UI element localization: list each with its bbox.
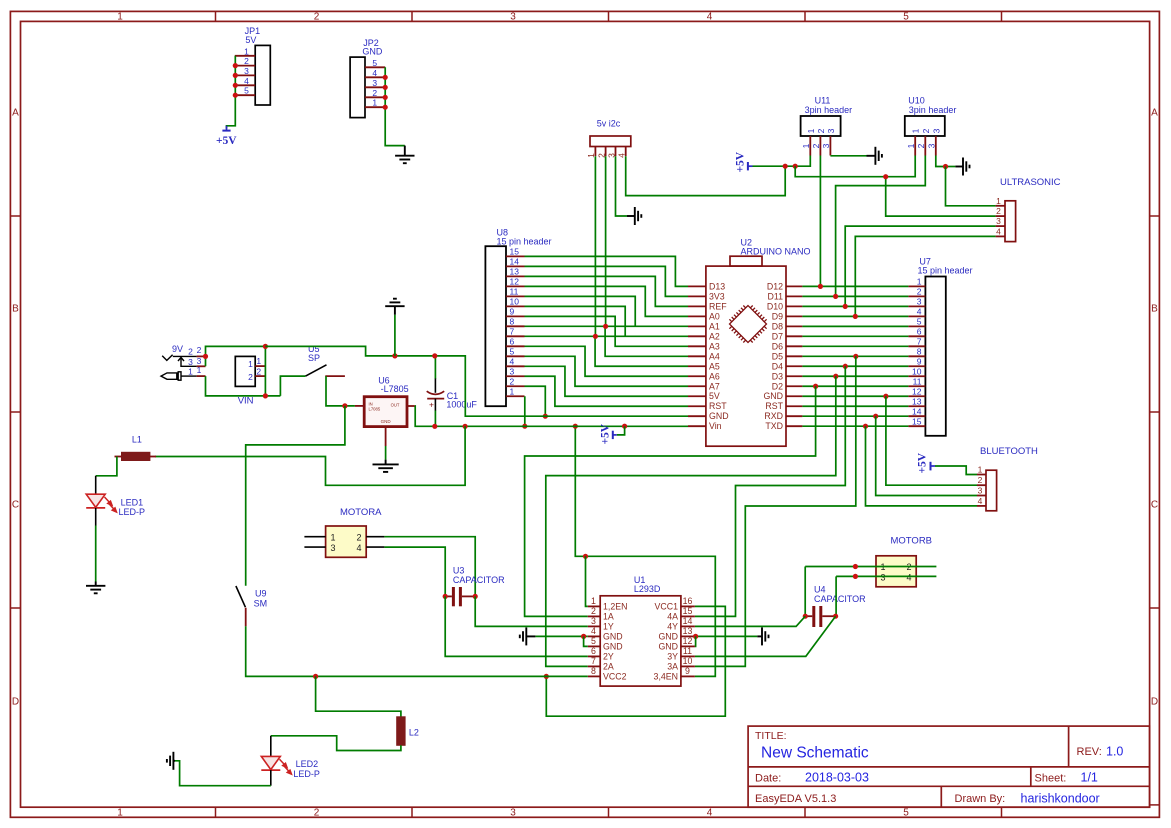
- svg-text:2: 2: [921, 128, 931, 133]
- svg-text:7: 7: [510, 327, 515, 337]
- wire +5V rail to U11 pin1: [753, 156, 811, 167]
- wire +5V to BLUETOOTH pin1: [935, 466, 977, 475]
- U2 right pin D3: [786, 375, 802, 377]
- svg-text:GND: GND: [763, 391, 783, 401]
- U7 pin 2: [908, 295, 925, 297]
- svg-text:4: 4: [591, 626, 596, 636]
- svg-text:+5V: +5V: [917, 452, 929, 473]
- svg-text:1.0: 1.0: [1106, 745, 1123, 759]
- svg-text:1: 1: [806, 128, 816, 133]
- connector 5v i2c: [590, 136, 631, 147]
- wire U2 D7 to U7 pin 6: [802, 335, 908, 337]
- svg-text:2: 2: [256, 367, 261, 377]
- MOTORA right leads: [366, 536, 384, 538]
- svg-text:2: 2: [188, 347, 193, 357]
- wire U1 pin4 to pin5: [584, 636, 588, 646]
- U10 pin 3: [935, 136, 937, 156]
- U2 right pin D4: [786, 365, 802, 367]
- title block: [748, 726, 1150, 807]
- wire U2 D11 to U7 pin 2: [802, 295, 908, 297]
- svg-text:EasyEDA V5.1.3: EasyEDA V5.1.3: [755, 793, 836, 805]
- svg-text:15: 15: [510, 247, 520, 257]
- ground at JP2: [404, 146, 406, 156]
- U7 pin 5: [908, 325, 925, 327]
- U1 pin 7 2A: [588, 665, 600, 667]
- U2 right pin TXD: [786, 425, 802, 427]
- wire L1 to LED1: [96, 457, 117, 476]
- BLUETOOTH pin 1: [977, 474, 986, 476]
- U7 pin 12: [908, 395, 925, 397]
- svg-text:L7085: L7085: [369, 406, 381, 411]
- svg-text:GND: GND: [362, 47, 383, 57]
- svg-text:1: 1: [256, 356, 261, 366]
- svg-text:7: 7: [591, 656, 596, 666]
- connector JP1 5V: [255, 45, 270, 105]
- U2 left pin A7: [688, 385, 706, 387]
- svg-text:2: 2: [372, 88, 377, 98]
- svg-text:1: 1: [510, 386, 515, 396]
- svg-text:3: 3: [996, 216, 1001, 226]
- wire i2c pin2 to A1 row: [605, 156, 607, 326]
- svg-text:D7: D7: [772, 331, 783, 341]
- svg-text:2: 2: [197, 345, 202, 355]
- svg-text:A: A: [1151, 108, 1158, 119]
- svg-text:C: C: [1151, 500, 1158, 511]
- U2 right pin D6: [786, 345, 802, 347]
- svg-text:1/1: 1/1: [1081, 771, 1098, 785]
- svg-text:MOTORA: MOTORA: [340, 507, 382, 518]
- wire VCC1 to bottom rail: [546, 606, 725, 716]
- svg-text:3: 3: [244, 66, 249, 76]
- svg-text:Vin: Vin: [709, 421, 722, 431]
- U2 left pin A3: [688, 345, 706, 347]
- svg-text:1Y: 1Y: [603, 622, 614, 632]
- U1 pin 12 GND: [681, 645, 695, 647]
- svg-text:1: 1: [911, 128, 921, 133]
- svg-text:A4: A4: [709, 351, 720, 361]
- svg-text:REF: REF: [709, 301, 727, 311]
- U7 pin 4: [908, 315, 925, 317]
- svg-text:3: 3: [927, 143, 937, 148]
- MOTORA left leads: [304, 536, 325, 538]
- svg-text:RST: RST: [765, 401, 783, 411]
- U2 left pin 3V3: [688, 295, 706, 297]
- svg-text:3: 3: [188, 357, 193, 367]
- wire U2 D2 to U7 pin 11: [802, 385, 908, 387]
- svg-text:RXD: RXD: [764, 411, 783, 421]
- svg-text:5: 5: [917, 317, 922, 327]
- U1 pin 5 GND: [588, 645, 600, 647]
- U1 pin 4 GND: [588, 635, 600, 637]
- svg-text:D8: D8: [772, 321, 783, 331]
- svg-text:3: 3: [510, 11, 516, 22]
- wire C1 bottom to Vin row: [434, 411, 436, 427]
- U1 pin 2 1A: [588, 615, 600, 617]
- svg-text:A2: A2: [709, 331, 720, 341]
- U2 left pin A0: [688, 315, 706, 317]
- wire i2c pin3 to ground: [616, 156, 628, 216]
- svg-text:4: 4: [996, 226, 1001, 236]
- svg-text:OUT: OUT: [391, 403, 400, 408]
- U1 pin 8 VCC2: [588, 675, 600, 677]
- svg-text:2: 2: [248, 372, 253, 382]
- svg-text:5: 5: [591, 636, 596, 646]
- U8 pin 9: [506, 315, 525, 317]
- svg-text:15: 15: [683, 606, 693, 616]
- connector U10 3pin header: [905, 116, 945, 136]
- wire U2 D6 to U7 pin 7: [802, 345, 908, 347]
- U5 pin 1: [255, 365, 265, 367]
- svg-text:D2: D2: [772, 381, 783, 391]
- U1 pin 15 4A: [681, 615, 695, 617]
- wire ULTRASONIC pin4 to D9 row: [855, 236, 995, 316]
- svg-text:6: 6: [510, 337, 515, 347]
- svg-text:3: 3: [917, 297, 922, 307]
- svg-text:CAPACITOR: CAPACITOR: [453, 575, 505, 585]
- wire U4 left to L293D 4Y: [695, 616, 805, 626]
- svg-text:4Y: 4Y: [667, 622, 678, 632]
- wire +5V branch to U10 pin1: [795, 156, 915, 177]
- svg-text:D12: D12: [767, 281, 783, 291]
- svg-text:2A: 2A: [603, 662, 614, 672]
- ULTRASONIC pin 3: [996, 225, 1005, 227]
- svg-text:1: 1: [801, 143, 811, 148]
- wire ULTRASONIC pin2 to +5V rail: [886, 177, 996, 216]
- svg-text:1: 1: [591, 596, 596, 606]
- connector JP2 GND: [350, 57, 365, 118]
- svg-text:LED2: LED2: [296, 759, 319, 769]
- U2 left pin D13: [688, 285, 706, 287]
- svg-text:New Schematic: New Schematic: [761, 745, 869, 762]
- U8 pin 6: [506, 345, 525, 347]
- ground below LED1: [86, 585, 105, 587]
- svg-text:1: 1: [331, 532, 336, 542]
- svg-text:6: 6: [917, 327, 922, 337]
- svg-text:GND: GND: [709, 411, 729, 421]
- jack pin 2: [197, 355, 206, 357]
- U11 pin 2: [819, 136, 821, 156]
- svg-text:10: 10: [683, 656, 693, 666]
- svg-text:MOTORB: MOTORB: [891, 535, 933, 546]
- U8 pin 5: [506, 355, 525, 357]
- wire A2 row: [595, 335, 688, 337]
- LED LED2 LED-P: [270, 736, 272, 757]
- svg-text:+5V: +5V: [216, 135, 237, 147]
- svg-text:GND: GND: [658, 632, 678, 642]
- U7 pin 15: [908, 425, 925, 427]
- wire D2 to L293D 1A: [525, 386, 816, 616]
- svg-text:A3: A3: [709, 341, 720, 351]
- svg-text:3: 3: [931, 128, 941, 133]
- U2 right pin D11: [786, 295, 802, 297]
- wire U2 D3 to U7 pin 10: [802, 375, 908, 377]
- wire U3 left to L293D 2Y: [445, 596, 588, 656]
- wire jack pins 2-3 to 9V rail: [206, 346, 266, 366]
- U2 left pin A5: [688, 365, 706, 367]
- wire L2 to LED2: [271, 736, 401, 751]
- svg-text:11: 11: [913, 376, 922, 386]
- svg-text:1: 1: [996, 196, 1001, 206]
- wire MOTORA pin2 to U3 right: [384, 537, 475, 597]
- wire MOTORB pin1 to U4 left: [804, 567, 806, 617]
- U7 pin 13: [908, 405, 925, 407]
- U7 pin 1: [908, 285, 925, 287]
- U7 pin 6: [908, 335, 925, 337]
- wire D5 to L293D 3A: [695, 356, 856, 666]
- svg-text:3: 3: [821, 143, 831, 148]
- svg-text:D4: D4: [772, 361, 783, 371]
- svg-text:+5V: +5V: [600, 423, 612, 444]
- svg-text:3: 3: [510, 807, 516, 818]
- svg-text:5: 5: [244, 86, 249, 96]
- U2 left pin A6: [688, 375, 706, 377]
- svg-text:A: A: [12, 108, 19, 119]
- U2 right pin RXD: [786, 415, 802, 417]
- svg-text:5: 5: [372, 58, 377, 68]
- U1 pin 13 GND: [681, 635, 695, 637]
- svg-text:1A: 1A: [603, 612, 614, 622]
- svg-text:3: 3: [826, 128, 836, 133]
- svg-text:U9: U9: [255, 589, 267, 599]
- JP1 pin 4: [235, 84, 255, 86]
- wire GND right to BLUETOOTH pin2: [886, 396, 977, 485]
- JP1 pin 1: [235, 55, 255, 57]
- svg-text:1: 1: [248, 359, 253, 369]
- U2 left pin A1: [688, 325, 706, 327]
- svg-text:GND: GND: [658, 642, 678, 652]
- svg-text:L293D: L293D: [634, 584, 661, 594]
- U8 pin 1: [506, 395, 525, 397]
- svg-text:14: 14: [683, 616, 693, 626]
- U2 right pin GND: [786, 395, 802, 397]
- svg-text:2: 2: [510, 376, 515, 386]
- JP2 pin 1: [365, 106, 385, 108]
- wire U2 TXD to U7 pin 15: [802, 425, 908, 427]
- ground at LED2: [172, 752, 174, 770]
- wire U2 D12 to U7 pin 1: [802, 285, 908, 287]
- wire U5 pins vertical: [264, 346, 266, 396]
- wire LED2 to ground: [270, 770, 272, 786]
- svg-text:B: B: [1151, 304, 1158, 315]
- power +5V flag on Vin row: [617, 426, 625, 435]
- U5 pin 2: [255, 375, 265, 377]
- svg-text:8: 8: [591, 666, 596, 676]
- U8 pin 2: [506, 385, 525, 387]
- U8 pin 14: [506, 265, 525, 267]
- power +5V flag near U11: [747, 162, 749, 170]
- svg-text:15 pin header: 15 pin header: [497, 236, 552, 246]
- svg-text:LED-P: LED-P: [293, 769, 320, 779]
- svg-text:1: 1: [117, 11, 123, 22]
- JP2 pin 4: [365, 76, 385, 78]
- svg-text:LED-P: LED-P: [119, 507, 146, 517]
- svg-text:D13: D13: [709, 281, 725, 291]
- U7 pin 14: [908, 415, 925, 417]
- svg-text:3: 3: [372, 78, 377, 88]
- connector U5 SP body: [235, 356, 255, 386]
- ground at i2c pin3: [627, 215, 635, 217]
- U8 pin 7: [506, 335, 525, 337]
- U8 pin 8: [506, 325, 525, 327]
- wire U11 pin3 to ground: [830, 155, 866, 157]
- wire U10 pin3 to ground and ULTRASONIC pin1: [936, 156, 946, 167]
- wire U8 pin1 to Vin row: [524, 396, 526, 426]
- BLUETOOTH pin 2: [977, 484, 986, 486]
- svg-text:VCC1: VCC1: [655, 602, 679, 612]
- svg-text:3A: 3A: [667, 662, 678, 672]
- svg-text:SM: SM: [254, 599, 268, 609]
- svg-text:1: 1: [978, 465, 983, 475]
- svg-text:D6: D6: [772, 341, 783, 351]
- svg-text:11: 11: [510, 287, 519, 297]
- U2 right pin D10: [786, 305, 802, 307]
- U8 pin 3: [506, 375, 525, 377]
- U2 right pin D8: [786, 325, 802, 327]
- svg-text:Sheet:: Sheet:: [1035, 773, 1067, 785]
- svg-text:VCC2: VCC2: [603, 672, 627, 682]
- wire U4 right to L293D 3Y: [695, 616, 836, 656]
- svg-text:6: 6: [591, 646, 596, 656]
- wire U10 pin2 to D11 row: [836, 156, 926, 297]
- U2 right pin RST: [786, 405, 802, 407]
- connector ULTRASONIC: [1005, 201, 1016, 242]
- wire VIN row to switch: [280, 376, 305, 396]
- svg-text:REV:: REV:: [1077, 746, 1102, 758]
- connector U8 15 pin header: [485, 246, 506, 406]
- svg-text:3: 3: [331, 543, 336, 553]
- svg-text:9: 9: [510, 307, 515, 317]
- U6 GND pin to ground: [385, 427, 387, 446]
- svg-text:SP: SP: [308, 353, 320, 363]
- svg-text:C: C: [12, 500, 19, 511]
- U8 pin 4: [506, 365, 525, 367]
- U2 left pin RST: [688, 405, 706, 407]
- svg-text:2: 2: [811, 143, 821, 148]
- 5v i2c pin 3: [615, 147, 617, 157]
- U8 pin 10: [506, 305, 525, 307]
- svg-text:4: 4: [707, 807, 713, 818]
- svg-text:3: 3: [978, 486, 983, 496]
- svg-text:3pin header: 3pin header: [909, 105, 957, 115]
- U2 left pin 5V: [688, 395, 706, 397]
- U2 right pin D12: [786, 285, 802, 287]
- U11 pin 3: [829, 136, 831, 156]
- svg-text:D: D: [1151, 697, 1158, 708]
- ground at U11 pin3: [874, 147, 876, 165]
- wire U2 RXD to U7 pin 14: [802, 415, 908, 417]
- wire VCC2 row to L2: [316, 676, 401, 717]
- U10 pin 1: [914, 136, 916, 156]
- svg-text:1: 1: [372, 98, 377, 108]
- wire U2 D9 to U7 pin 4: [802, 315, 908, 317]
- wire to U9 chain: [246, 406, 345, 586]
- wire i2c pin4 to +5V rail: [626, 156, 786, 195]
- U2 left pin REF: [688, 305, 706, 307]
- U2 left pin A2: [688, 335, 706, 337]
- U8 pin 12: [506, 285, 525, 287]
- wire JP2 pins to ground: [385, 67, 405, 145]
- wire jack pin1 to VIN row: [206, 376, 281, 396]
- wire U2 D5 to U7 pin 8: [802, 355, 908, 357]
- svg-text:13: 13: [683, 626, 693, 636]
- U1 pin 14 4Y: [681, 625, 695, 627]
- svg-text:12: 12: [510, 277, 520, 287]
- svg-text:5V: 5V: [245, 35, 256, 45]
- jack pin 1: [197, 375, 206, 377]
- power +5V flag at JP1: [226, 126, 228, 131]
- wire RXD to BLUETOOTH pin3: [876, 416, 977, 495]
- JP2 pin 5: [365, 66, 385, 68]
- svg-text:1: 1: [117, 807, 123, 818]
- 5v i2c pin 4: [625, 147, 627, 157]
- svg-text:L2: L2: [409, 727, 419, 737]
- svg-text:TITLE:: TITLE:: [755, 730, 787, 742]
- JP2 pin 3: [365, 86, 385, 88]
- svg-text:10: 10: [510, 297, 520, 307]
- U2 left pin GND: [688, 415, 706, 417]
- svg-text:3,4EN: 3,4EN: [654, 672, 678, 682]
- svg-text:15 pin header: 15 pin header: [918, 266, 973, 276]
- svg-text:1: 1: [197, 365, 202, 375]
- ruler ticks and labels: [215, 11, 217, 21]
- U7 pin 9: [908, 365, 925, 367]
- svg-text:GND: GND: [603, 642, 623, 652]
- svg-text:B: B: [12, 304, 19, 315]
- svg-text:RST: RST: [709, 401, 727, 411]
- svg-text:ULTRASONIC: ULTRASONIC: [1000, 177, 1061, 188]
- wire U2 D4 to U7 pin 9: [802, 365, 908, 367]
- wire U1 GND pin4 with ground: [535, 635, 587, 637]
- U1 pin 16 VCC1: [681, 605, 695, 607]
- IC U1 L293D: [600, 596, 681, 686]
- U7 pin 10: [908, 375, 925, 377]
- svg-text:2: 2: [996, 206, 1001, 216]
- svg-text:CAPACITOR: CAPACITOR: [814, 594, 866, 604]
- U7 pin 7: [908, 345, 925, 347]
- svg-text:1: 1: [188, 367, 193, 377]
- wire D4 to L293D 4A: [695, 366, 845, 616]
- svg-text:4A: 4A: [667, 612, 678, 622]
- ground inverted above rail: [394, 315, 396, 356]
- svg-text:9V: 9V: [172, 344, 183, 354]
- svg-text:D9: D9: [772, 311, 783, 321]
- svg-text:8: 8: [510, 317, 515, 327]
- U2 left pin A4: [688, 355, 706, 357]
- svg-text:2: 2: [314, 11, 320, 22]
- svg-text:D: D: [12, 697, 19, 708]
- svg-text:D11: D11: [768, 291, 784, 301]
- wire MOTORA pin4 to U3 left: [384, 547, 445, 596]
- svg-text:Date:: Date:: [755, 773, 781, 785]
- svg-text:D10: D10: [767, 301, 783, 311]
- svg-text:9: 9: [685, 666, 690, 676]
- svg-text:+: +: [429, 400, 434, 410]
- svg-text:+5V: +5V: [735, 151, 747, 172]
- U8 pin 11: [506, 295, 525, 297]
- svg-text:BLUETOOTH: BLUETOOTH: [980, 446, 1038, 457]
- U2 chip glyph: [729, 306, 766, 343]
- wire D3 to L293D 2A: [546, 376, 836, 666]
- ground at U6: [373, 463, 399, 465]
- svg-text:5v i2c: 5v i2c: [597, 119, 621, 129]
- wire MOTORB pin3 row: [836, 575, 936, 577]
- svg-text:4: 4: [978, 496, 983, 506]
- svg-text:5V: 5V: [709, 391, 720, 401]
- svg-text:1,2EN: 1,2EN: [603, 602, 627, 612]
- svg-text:3: 3: [510, 366, 515, 376]
- wire MOTORB pin3 to U4 right: [835, 576, 837, 616]
- wire U8 pin2 to GND row: [525, 386, 546, 416]
